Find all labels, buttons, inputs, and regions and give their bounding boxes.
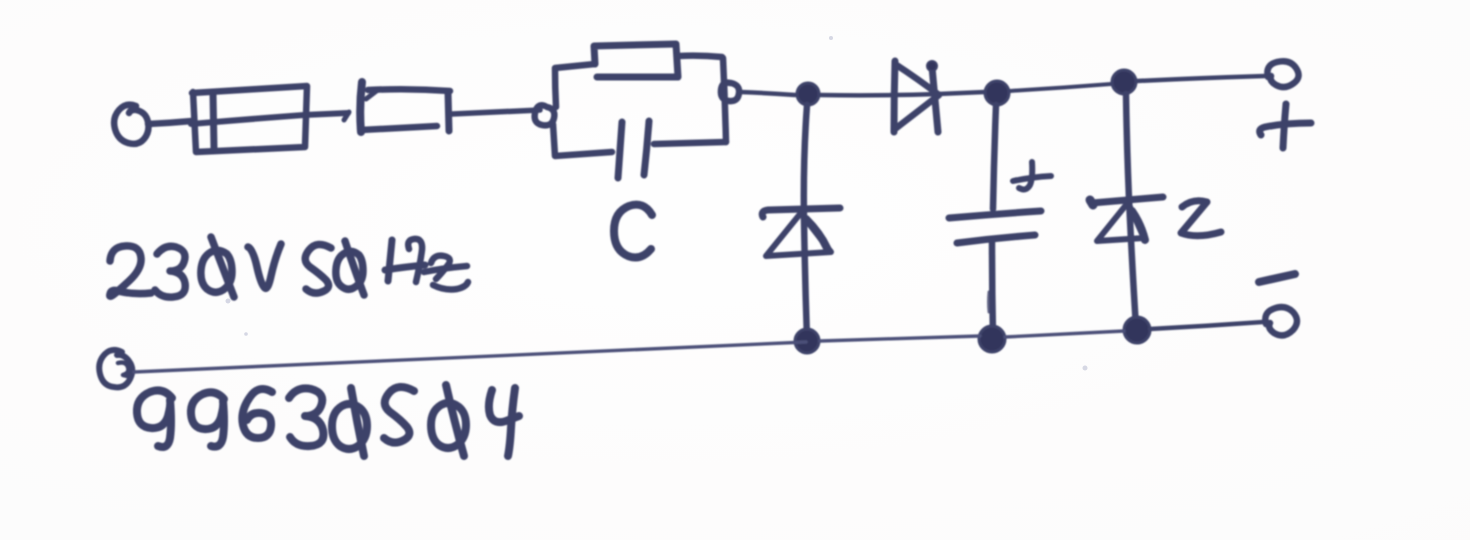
digit 0 slashed — [336, 251, 363, 289]
node B2 (junction dot) — [979, 326, 1005, 352]
label minus (bottom right) — [1259, 274, 1295, 282]
digit 0 slashed — [332, 404, 367, 449]
zener doubled right edge — [1132, 211, 1145, 240]
zener cathode bar — [1092, 197, 1163, 203]
wire node B to node N1 — [740, 92, 795, 95]
electrolytic plus mark — [1013, 176, 1051, 181]
wire node A down to capacitor branch — [553, 124, 612, 156]
pen retrace beside stem — [987, 292, 991, 312]
resistor R1 top edge — [368, 89, 450, 91]
shunt diode D1 stem from N1 through to B1 — [804, 105, 807, 339]
node N1 (junction dot) — [797, 83, 819, 105]
node A (left loop of RC pair) — [535, 105, 555, 125]
diode D2 anode bar — [894, 61, 895, 132]
node N3 (junction dot) — [1112, 70, 1136, 94]
terminal L2 inner curl — [118, 363, 131, 378]
electrolytic bottom plate — [957, 235, 1035, 243]
wire N3 to output terminal plus — [1137, 76, 1265, 81]
digit 0 slashed — [431, 403, 466, 448]
text 9963 0504 — [137, 385, 519, 456]
node B (right loop of RC pair) — [721, 83, 739, 101]
wire B3 to output terminal minus — [1150, 322, 1263, 329]
digit 9 — [191, 392, 224, 446]
right vertical of RC loop — [723, 58, 726, 142]
resistor R1 right edge — [448, 92, 449, 131]
digit 5 — [384, 387, 414, 443]
digit 2 — [110, 246, 151, 296]
digit 5 — [305, 244, 331, 293]
digit 3 — [155, 246, 185, 297]
wire N1 through diode D2 to N2 — [820, 92, 985, 95]
text 230V 50Hz — [110, 237, 468, 297]
diode D2 cathode bar — [932, 67, 938, 132]
digit 3 — [289, 388, 323, 446]
electrolytic capacitor stem from N2 — [993, 105, 996, 209]
capacitor C left plate — [618, 122, 622, 178]
letter z — [431, 256, 450, 279]
wire through fuse — [191, 113, 348, 124]
fuse F1 inner line — [213, 93, 214, 149]
diode D1 triangle — [766, 214, 831, 256]
faint ink specks — [226, 36, 1088, 371]
zener triangle — [1097, 205, 1144, 241]
wire node A up (left side of RC loop) — [555, 64, 595, 107]
letter V — [248, 244, 281, 288]
input terminal L2 (bottom left) — [99, 350, 132, 387]
resistor R1 box — [360, 82, 362, 132]
output terminal plus circle — [1267, 61, 1298, 87]
wire N2 to node N3 — [1010, 84, 1111, 91]
resistor R1 start tick — [366, 89, 379, 99]
wire L1 to fuse — [148, 121, 192, 124]
wire electrolytic to bottom node B2 — [992, 241, 993, 336]
label Z — [1181, 201, 1221, 236]
node B3 (junction dot) — [1124, 317, 1150, 343]
fuse F1 box — [192, 86, 307, 152]
resistor R1 bottom edge — [361, 126, 437, 130]
zener diode stem from N3 through to B3 — [1126, 94, 1136, 327]
bottom rail L2 to B1 to B2 to B3 — [134, 331, 1124, 372]
label plus (top right) — [1260, 123, 1311, 135]
resistor R2 box (top branch) — [594, 44, 678, 77]
diode D1 doubled right edge — [806, 219, 827, 248]
digit 0 slashed — [201, 250, 232, 292]
node B1 (junction dot) — [795, 329, 819, 353]
output terminal minus circle — [1265, 307, 1297, 335]
digit 6 — [242, 389, 272, 438]
diode D2 cathode tip dot — [927, 61, 937, 71]
wire R2 to right side — [679, 56, 722, 57]
letter H — [388, 240, 392, 281]
zener bar left end blob — [1090, 200, 1093, 205]
diode D2 triangle — [895, 64, 939, 129]
capacitor C right plate — [644, 121, 649, 175]
wire R1 to node A — [452, 110, 540, 114]
wire capacitor to right vertical — [654, 142, 726, 144]
digit 9 — [137, 390, 172, 447]
diode D1 cathode bar — [762, 208, 840, 217]
digit 4 — [489, 390, 519, 422]
electrolytic top plate — [949, 211, 1041, 218]
label C — [614, 205, 652, 258]
wire end tick — [344, 112, 349, 120]
input terminal L1 (top left) — [114, 105, 148, 144]
node N2 (junction dot) — [985, 81, 1009, 105]
